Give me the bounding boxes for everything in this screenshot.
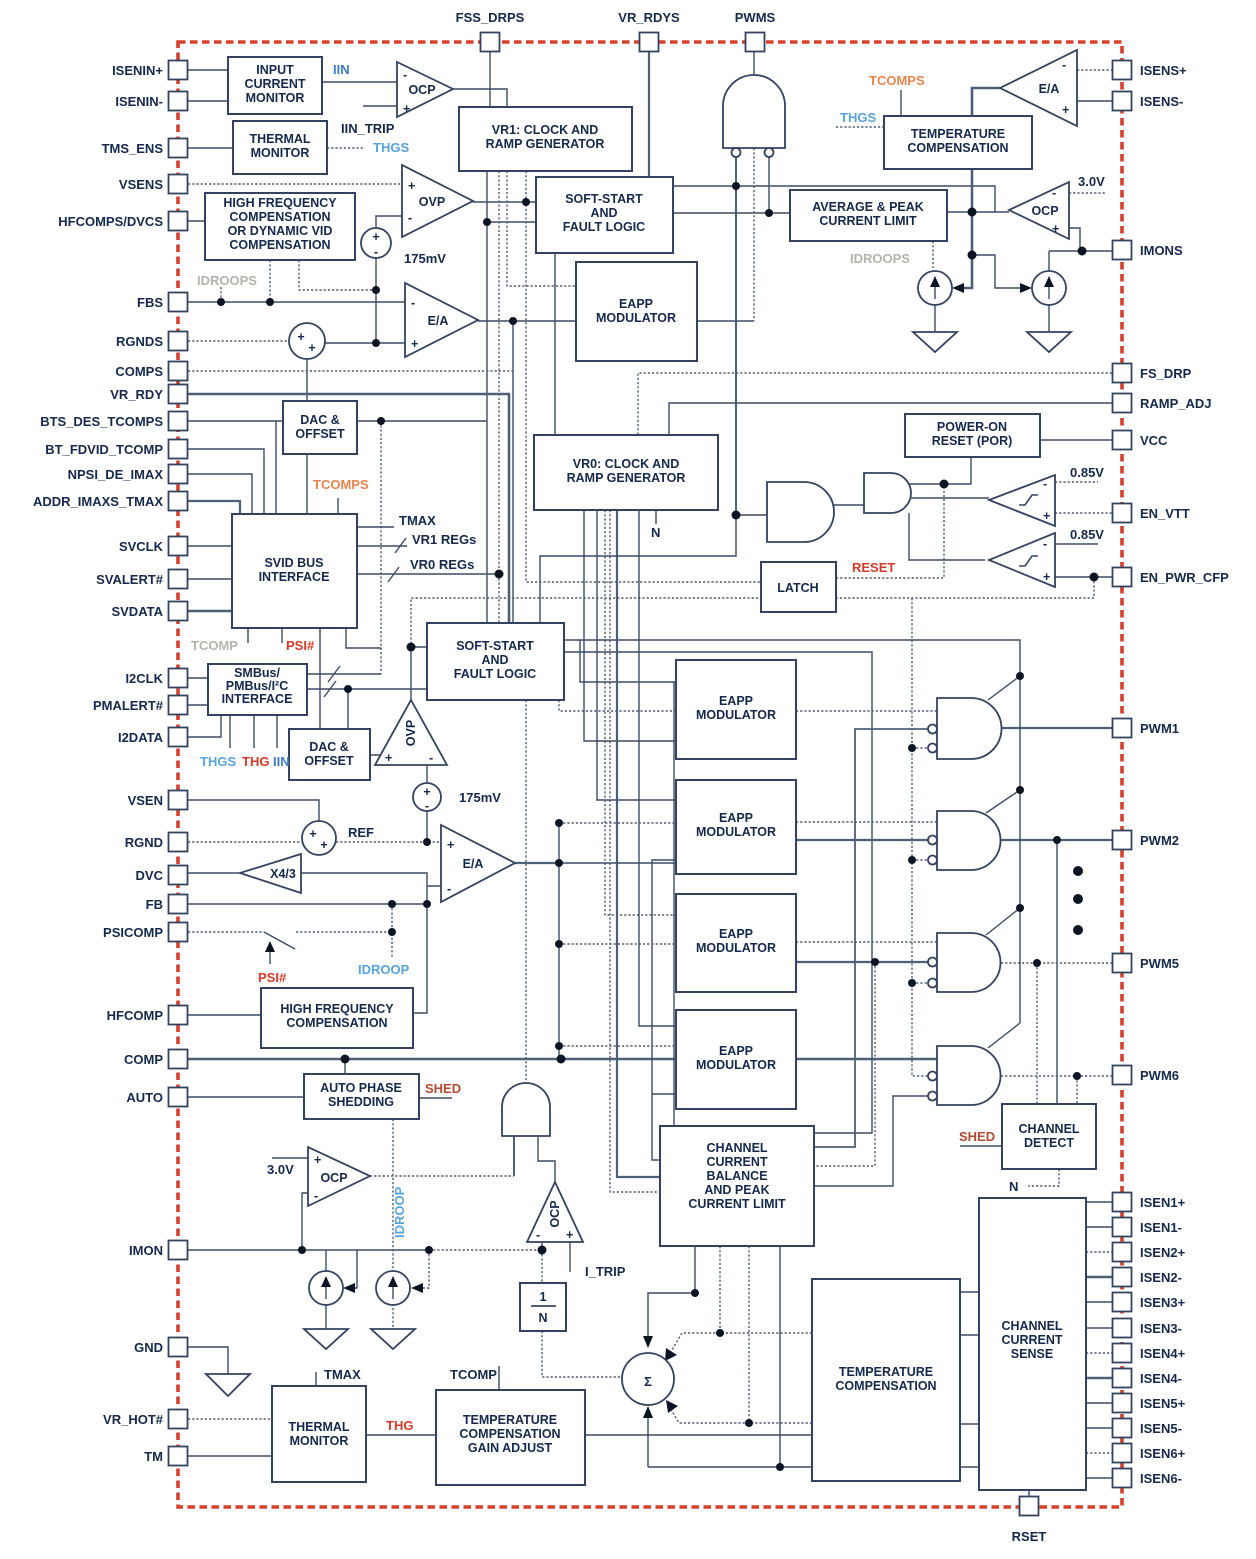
svg-text:EAPP: EAPP (619, 297, 653, 311)
svg-text:INPUT: INPUT (256, 63, 294, 77)
wire EA3 rail (558, 823, 560, 1059)
pin ISEN4- (1113, 1369, 1132, 1388)
wire sigma bottom arrow (647, 1412, 649, 1467)
wire source grounds A (934, 305, 936, 332)
block SOFT-START AND FAULT LOGIC (VR0) (427, 623, 564, 700)
wire HFCOMPS/DVCS stub (188, 220, 205, 222)
wire ISEN6- stub (1086, 1477, 1112, 1479)
svg-text:EAPP: EAPP (719, 1044, 753, 1058)
ground (below IMONS current source) (1027, 332, 1071, 352)
pin PWMS (746, 33, 765, 52)
pin TMS_ENS (169, 139, 188, 158)
svg-text:MODULATOR: MODULATOR (696, 708, 776, 722)
pin ISEN2+ (1113, 1243, 1132, 1262)
wire FB to IDROOP node (391, 904, 393, 957)
svg-text:OR DYNAMIC VID: OR DYNAMIC VID (228, 224, 333, 238)
svg-text:IDROOPS: IDROOPS (850, 251, 910, 266)
wire THG (366, 1434, 436, 1436)
wire TMAX out (357, 526, 394, 528)
pin IMON (169, 1241, 188, 1260)
wire MOD3 wrap (814, 962, 875, 1166)
wire TMS_ENS to thermal monitor (188, 147, 233, 149)
wire 175mV2 to OVP minus (426, 765, 428, 783)
wire BT_FDVID_TCOMP to SVID (188, 449, 264, 514)
wire IMON to 1/N (541, 1250, 543, 1283)
pin HFCOMPS/DVCS (169, 212, 188, 231)
wire OCP2 ref 3.0V (1069, 192, 1105, 194)
wire BTS_DES_TCOMPS to SVID (188, 421, 283, 514)
wire ADDR_IMAXS_TMAX to SVID (188, 501, 240, 514)
svg-text:0.85V: 0.85V (1070, 465, 1104, 480)
pin ISEN5+ (1113, 1394, 1132, 1413)
wire soft-start1 out A (673, 186, 995, 212)
wire ISEN5- stub (1086, 1427, 1112, 1429)
svg-text:-: - (425, 799, 429, 813)
wire OCP out to VR1 clock (453, 89, 507, 107)
svg-text:IIN: IIN (333, 62, 350, 77)
wire ISEN1+ stub (1086, 1201, 1112, 1203)
wire auto phase shed to IMON source (392, 1119, 394, 1329)
svg-text:TCOMP: TCOMP (191, 638, 238, 653)
svg-text:+: + (447, 838, 454, 852)
svg-text:OVP: OVP (419, 195, 445, 209)
wire OCP4 minus (541, 1242, 543, 1250)
AND gate (enable 2) (864, 473, 911, 513)
pin ISEN6+ (1113, 1444, 1132, 1463)
wire TM (188, 1455, 272, 1457)
wire E/A out to EAPP modulator (478, 320, 576, 322)
svg-text:FAULT LOGIC: FAULT LOGIC (454, 667, 536, 681)
wire soft-start2 to MOD-A (559, 700, 676, 711)
wire sigma top arrow (648, 1246, 695, 1342)
svg-text:RAMP_ADJ: RAMP_ADJ (1140, 396, 1212, 411)
svg-text:CURRENT: CURRENT (1001, 1333, 1062, 1347)
comparator EN_PWR (schmitt, left-pointing) (989, 533, 1055, 587)
svg-text:COMPENSATION: COMPENSATION (835, 1379, 936, 1393)
bus slash VR0 REGs (388, 567, 399, 582)
block CHANNEL CURRENT BALANCE AND PEAK CURRENT LIMIT (660, 1126, 814, 1246)
svg-text:-: - (536, 1228, 540, 1242)
wire schmitt2 plus EN_PWR (1055, 576, 1112, 578)
wire EN_PWR feedback (dotted) (411, 577, 1094, 647)
wire VR0 to balance left B (610, 510, 660, 1192)
pin SVALERT# (169, 570, 188, 589)
wire HFCOMP to HF comp block (188, 1014, 261, 1016)
wire POR to VCC (1040, 439, 1112, 441)
svg-text:FAULT LOGIC: FAULT LOGIC (563, 220, 645, 234)
wire temp comp to sense link 1 (960, 1291, 979, 1293)
svg-text:THGS: THGS (200, 754, 236, 769)
wire VR_RDY down to soft-start VR0 (188, 394, 509, 623)
svg-text:+: + (372, 230, 379, 244)
wire ISENS- (1077, 100, 1112, 102)
pin ISENIN- (169, 92, 188, 111)
block POWER-ON RESET (POR) (905, 414, 1040, 457)
wire OCP4 plus I_TRIP (569, 1242, 571, 1272)
svg-text:Σ: Σ (644, 1374, 652, 1389)
wire SMBus bus B to soft-start (307, 688, 427, 690)
svg-text:TCOMPS: TCOMPS (869, 73, 925, 88)
wire EA3 out (515, 862, 559, 864)
block DAC &amp; OFFSET (VR1) (283, 401, 357, 454)
svg-text:SHED: SHED (425, 1081, 461, 1096)
svg-text:+: + (1062, 103, 1069, 117)
wire MOD2 out b to gate2 top (796, 821, 937, 823)
wire IIN stub smbus (276, 715, 278, 748)
right pins column (1113, 61, 1132, 1488)
svg-text:RESET: RESET (852, 560, 895, 575)
svg-text:ISEN1+: ISEN1+ (1140, 1195, 1186, 1210)
wire balance to sigma diag upper (669, 1246, 812, 1355)
wire IMONS line (1049, 250, 1112, 252)
svg-text:EAPP: EAPP (719, 811, 753, 825)
wire POR to AND2 (864, 457, 971, 484)
svg-text:POWER-ON: POWER-ON (937, 420, 1007, 434)
pin ISEN6- (1113, 1469, 1132, 1488)
wire invert rail (912, 598, 928, 1076)
svg-text:TMAX: TMAX (399, 513, 436, 528)
wire TCOMPS net vertical (380, 421, 382, 674)
svg-text:175mV: 175mV (459, 790, 501, 805)
svg-text:3.0V: 3.0V (267, 1162, 294, 1177)
wire HF comp feedback (413, 904, 427, 1013)
wire HF comp to offset node (299, 260, 376, 290)
wire FSS_DRPS to VR1 clock (489, 51, 491, 107)
svg-text:AND PEAK: AND PEAK (704, 1183, 769, 1197)
wire gate1 bubble wrap (814, 729, 928, 1147)
svg-text:EAPP: EAPP (719, 694, 753, 708)
svg-text:VSENS: VSENS (119, 177, 163, 192)
svg-text:HFCOMPS/DVCS: HFCOMPS/DVCS (58, 214, 163, 229)
svg-text:RGND: RGND (125, 835, 163, 850)
wire OVP out to soft-start (473, 201, 536, 203)
wire VSEN to summing (188, 800, 319, 821)
wire RSET stub (1028, 1490, 1030, 1497)
block VR1: CLOCK AND RAMP GENERATOR (459, 107, 632, 171)
pin COMPS (169, 362, 188, 381)
svg-text:ISENS+: ISENS+ (1140, 63, 1187, 78)
block LATCH (761, 562, 836, 612)
wire ISEN1- stub (1086, 1226, 1112, 1228)
svg-text:SVCLK: SVCLK (119, 539, 164, 554)
svg-text:BT_FDVID_TCOMP: BT_FDVID_TCOMP (45, 442, 163, 457)
svg-text:PSICOMP: PSICOMP (103, 925, 163, 940)
pin RGND (169, 833, 188, 852)
svg-text:PWM5: PWM5 (1140, 956, 1179, 971)
wire COMP to auto phase shedding (344, 1059, 346, 1074)
wire THGS stub (327, 147, 365, 149)
svg-text:-: - (1043, 537, 1047, 551)
svg-text:PSI#: PSI# (286, 638, 315, 653)
ellipsis dots between PWM2 and PWM5 (1073, 866, 1083, 876)
svg-text:TMS_ENS: TMS_ENS (102, 141, 164, 156)
summing node (VR1 REF) (289, 323, 325, 359)
wire ISEN2+ stub (1086, 1251, 1112, 1253)
wire E/A out down to soft-start VR0 (512, 321, 514, 623)
block SMBus/PMBus/I2C INTERFACE (208, 664, 307, 715)
svg-text:+: + (308, 341, 315, 355)
wire SMBus bus A (307, 673, 381, 675)
svg-text:I2DATA: I2DATA (118, 730, 164, 745)
wire ISEN2- stub (1086, 1276, 1112, 1279)
svg-text:-: - (429, 751, 433, 765)
pin ISEN3+ (1113, 1293, 1132, 1312)
wire RGNDS to summing node (188, 340, 290, 342)
svg-text:EN_VTT: EN_VTT (1140, 506, 1190, 521)
wire rail to MOD2 B (559, 862, 676, 864)
svg-text:VR_HOT#: VR_HOT# (103, 1412, 164, 1427)
svg-text:COMPENSATION: COMPENSATION (229, 238, 330, 252)
pin VR_RDYS (640, 33, 659, 52)
summing node (VR0 REF) (302, 821, 336, 855)
svg-text:OCP: OCP (548, 1200, 562, 1227)
svg-text:SMBus/: SMBus/ (234, 666, 280, 680)
wire balance to sigma diag lower (669, 1246, 812, 1423)
block EAPP MODULATOR 1 (PWM1) (676, 660, 796, 759)
svg-text:MODULATOR: MODULATOR (596, 311, 676, 325)
svg-text:PWM6: PWM6 (1140, 1068, 1179, 1083)
svg-text:EN_PWR_CFP: EN_PWR_CFP (1140, 570, 1229, 585)
pin EN_PWR_CFP (1113, 568, 1132, 587)
wire IMON step to IDROOP source arrow (349, 1250, 357, 1288)
wire IMONS source top (1048, 251, 1050, 271)
svg-text:FS_DRP: FS_DRP (1140, 366, 1192, 381)
wire soft-start1 to VR0 (554, 253, 556, 435)
wire schmitt2 ref stub (1055, 543, 1098, 545)
svg-text:THGS: THGS (373, 140, 409, 155)
wire IMON to IDROOP source (325, 1250, 327, 1271)
svg-text:ISENIN-: ISENIN- (115, 94, 163, 109)
svg-text:ADDR_IMAXS_TMAX: ADDR_IMAXS_TMAX (33, 494, 163, 509)
svg-text:-: - (1052, 186, 1056, 200)
wire VR0 to MOD-C (605, 510, 676, 915)
pin I2DATA (169, 728, 188, 747)
svg-text:MODULATOR: MODULATOR (696, 1058, 776, 1072)
wire VR_HOT# (188, 1418, 272, 1420)
wire VR1 REGs out (357, 545, 407, 547)
svg-text:VR_RDY: VR_RDY (110, 387, 163, 402)
wire AND2 to schmitt1 (911, 497, 989, 499)
svg-text:TM: TM (144, 1449, 163, 1464)
pin VR_RDY (169, 385, 188, 404)
svg-text:CHANNEL: CHANNEL (706, 1141, 767, 1155)
wire HF comp to FBS node (269, 260, 271, 302)
svg-text:OCP: OCP (408, 83, 435, 97)
wire THG stub smbus (253, 715, 255, 748)
wire PWM6 to channel detect (1076, 1076, 1078, 1104)
wire TCOMP stub (247, 628, 249, 643)
svg-text:MONITOR: MONITOR (251, 146, 310, 160)
svg-text:-: - (1043, 477, 1047, 491)
pin FS_DRP (1113, 364, 1132, 383)
svg-text:ISEN5-: ISEN5- (1140, 1421, 1182, 1436)
block INPUT CURRENT MONITOR (228, 57, 322, 114)
svg-text:ISEN5+: ISEN5+ (1140, 1396, 1186, 1411)
svg-text:OCP: OCP (1031, 204, 1058, 218)
wire soft-start2 to balance (564, 652, 872, 1133)
svg-text:TCOMPS: TCOMPS (313, 477, 369, 492)
wire 175mV to OVP minus (376, 216, 402, 228)
svg-text:SOFT-START: SOFT-START (456, 639, 534, 653)
bus slash A (328, 666, 340, 682)
wire 175mV source chain (375, 258, 377, 343)
wire SVALERT# (188, 578, 232, 580)
wire schmitt1 plus EN_VTT (1055, 512, 1112, 514)
svg-text:ISEN4-: ISEN4- (1140, 1371, 1182, 1386)
wire THGS stub smbus (229, 715, 231, 748)
AND gate (PWM6 driver) (928, 1046, 1000, 1105)
svg-text:-: - (1062, 58, 1066, 72)
wire VR0 N stub (655, 510, 657, 524)
wire ISENIN+ to input current monitor (188, 69, 228, 71)
wire TMAX stub thermal (315, 1372, 317, 1386)
pin PWM5 (1113, 954, 1132, 973)
pin NPSI_DE_IMAX (169, 465, 188, 484)
block TEMPERATURE COMPENSATION GAIN ADJUST (436, 1390, 585, 1485)
wire VR1 regs to LATCH (526, 171, 761, 582)
svg-text:FSS_DRPS: FSS_DRPS (456, 10, 525, 25)
pin FBS (169, 293, 188, 312)
wire AUTO (188, 1096, 304, 1098)
svg-text:THG: THG (386, 1418, 413, 1433)
wire PWM6 out (1001, 1075, 1112, 1077)
wire PSI# stub (281, 628, 283, 643)
wire step to IMONS source (972, 255, 1024, 288)
block 1/N divider (520, 1283, 566, 1331)
ground (below IDROOP source) (304, 1329, 348, 1349)
comparator EN_VTT (schmitt, left-pointing) (989, 475, 1055, 526)
wire X4/3 out (301, 873, 441, 904)
wire IMON line (188, 1249, 429, 1251)
svg-text:N: N (651, 525, 660, 540)
wire DAC offset to SVID (306, 454, 308, 514)
svg-text:VSEN: VSEN (128, 793, 163, 808)
wire VR0 to MOD-B (597, 510, 676, 800)
pin ISENS- (1113, 92, 1132, 111)
block TEMPERATURE COMPENSATION (sense) (884, 116, 1032, 169)
svg-text:IMONS: IMONS (1140, 243, 1183, 258)
wire temp comp to sense link 4 (960, 1466, 979, 1468)
svg-text:RGNDS: RGNDS (116, 334, 163, 349)
wire OVP2 out to soft-start (411, 647, 427, 700)
pin IMONS (1113, 241, 1132, 260)
wire AND5 out up (525, 700, 527, 1083)
svg-text:HFCOMP: HFCOMP (107, 1008, 164, 1023)
svg-text:ISEN3+: ISEN3+ (1140, 1295, 1186, 1310)
wire VR0 to MOD-A (584, 510, 676, 741)
svg-text:HIGH FREQUENCY: HIGH FREQUENCY (223, 196, 337, 210)
wire THGS stub temp comp (836, 126, 884, 128)
wire AND1 out (834, 504, 864, 506)
pin VSEN (169, 791, 188, 810)
svg-text:COMPS: COMPS (115, 364, 163, 379)
ground (GND pin) (206, 1374, 250, 1396)
svg-text:TMAX: TMAX (324, 1367, 361, 1382)
wire MOD3 out b to gate3 top (796, 941, 937, 943)
current source (IDROOP) (309, 1271, 343, 1305)
svg-text:MONITOR: MONITOR (246, 91, 305, 105)
svg-text:+: + (385, 751, 392, 765)
svg-text:VR1: CLOCK AND: VR1: CLOCK AND (492, 123, 598, 137)
svg-text:+: + (423, 785, 430, 799)
svg-text:MODULATOR: MODULATOR (696, 941, 776, 955)
comparator OCP (IMON) (308, 1147, 370, 1206)
wire AND5 left input (513, 1136, 515, 1176)
left pin labels (33, 63, 164, 1464)
pin VR_HOT# (169, 1410, 188, 1429)
svg-text:INTERFACE: INTERFACE (222, 692, 293, 706)
svg-text:AUTO: AUTO (126, 1090, 163, 1105)
wire schmitt2 link (909, 513, 985, 560)
svg-text:RAMP GENERATOR: RAMP GENERATOR (567, 471, 686, 485)
svg-text:IIN: IIN (273, 754, 290, 769)
wire soft-start1 out B (673, 212, 790, 214)
buffer X4/3 (left-pointing) (240, 854, 301, 893)
wire 175mV2 to REF (426, 811, 428, 842)
block HIGH FREQUENCY COMPENSATION (VR0) (261, 988, 413, 1048)
comparator OCP (I_TRIP, up-pointing) (527, 1182, 583, 1242)
wire OCP3 out (370, 1175, 514, 1177)
svg-text:TEMPERATURE: TEMPERATURE (463, 1413, 557, 1427)
block EAPP MODULATOR 2 (676, 780, 796, 874)
chip boundary (red dashed border) (178, 42, 1122, 1507)
wire PSICOMP to switch (188, 931, 264, 933)
wire MOD-B lower stub to balance (652, 860, 676, 1160)
pin I2CLK (169, 669, 188, 688)
wire summing out to E/A plus (325, 342, 405, 344)
wire 3.0V to OCP3 (272, 1157, 308, 1159)
svg-text:X4/3: X4/3 (270, 867, 296, 881)
svg-text:COMPENSATION: COMPENSATION (286, 1016, 387, 1030)
AND gate (PWMS, up-pointing with inverted inputs) (723, 75, 785, 157)
wire schmitt1 ref stub (1055, 481, 1098, 483)
wire NPSI_DE_IMAX to SVID (188, 474, 252, 514)
summing node sigma (622, 1353, 674, 1405)
wire gate4 bubble wrap (814, 1096, 928, 1186)
pin RGNDS (169, 332, 188, 351)
svg-text:E/A: E/A (463, 857, 484, 871)
svg-text:REF: REF (348, 825, 374, 840)
svg-text:N: N (538, 1311, 547, 1325)
svg-text:ISEN6+: ISEN6+ (1140, 1446, 1186, 1461)
svg-text:-: - (374, 245, 378, 259)
svg-text:RSET: RSET (1012, 1529, 1047, 1544)
svg-text:E/A: E/A (1039, 82, 1060, 96)
svg-text:FBS: FBS (137, 295, 163, 310)
svg-text:CURRENT: CURRENT (706, 1155, 767, 1169)
wire ISENS+ (1077, 69, 1112, 71)
pin ISENIN+ (169, 61, 188, 80)
wire SVCLK (188, 545, 232, 547)
wire 1/N to sigma (542, 1331, 622, 1377)
wire AND1 input (736, 514, 767, 516)
svg-text:AND: AND (481, 653, 508, 667)
wire sigma lower return (648, 1466, 812, 1468)
wire enable diag gate1 (988, 676, 1020, 700)
svg-text:COMPENSATION: COMPENSATION (907, 141, 1008, 155)
block HIGH FREQUENCY COMPENSATION OR DYNAMIC VID COMPENSATION (205, 193, 355, 260)
wire PMALERT# (188, 704, 208, 706)
wire temp comp to sense link 3 (960, 1423, 979, 1425)
svg-text:I2CLK: I2CLK (125, 671, 163, 686)
svg-text:DVC: DVC (136, 868, 164, 883)
voltage source 175mV (VR0) (413, 783, 441, 813)
wire RGND to summing (188, 841, 302, 843)
wire PWM2 out (1001, 839, 1112, 841)
block AUTO PHASE SHEDDING (304, 1074, 419, 1119)
wire VR0 REGs vertical (498, 171, 500, 623)
svg-text:SENSE: SENSE (1011, 1347, 1053, 1361)
